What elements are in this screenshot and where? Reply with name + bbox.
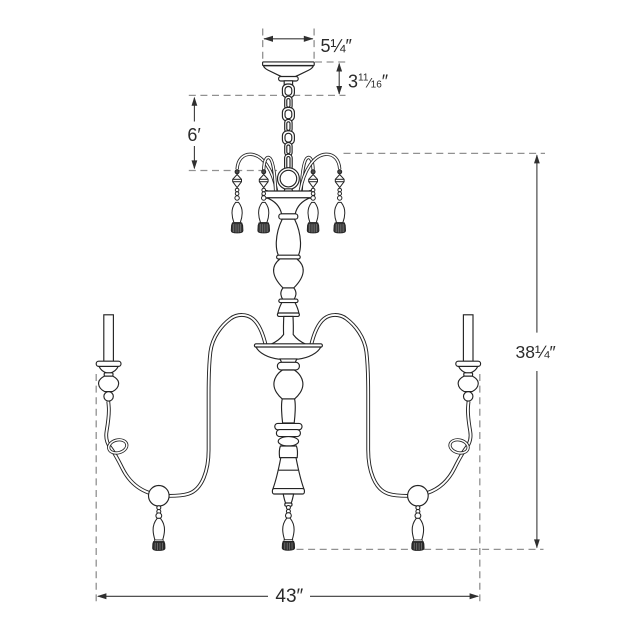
- lower disc: [275, 423, 302, 436]
- column stem: [271, 316, 306, 344]
- arrowhead 43 left: [97, 593, 107, 599]
- ring knob: [284, 189, 292, 193]
- candle left: [96, 315, 121, 401]
- upper tassel 4: [334, 170, 346, 233]
- column egg vase: [274, 259, 304, 288]
- svg-text:6′: 6′: [187, 125, 201, 145]
- svg-text:311⁄16″: 311⁄16″: [348, 72, 389, 92]
- 6ft arrow line bottom: [193, 146, 195, 168]
- chain link 2: [285, 96, 292, 109]
- upper arm inner right: [301, 157, 313, 190]
- arrowhead 38-1/4 down: [534, 539, 540, 548]
- lower vase: [274, 370, 303, 399]
- lower stem: [282, 399, 296, 423]
- main arm left upper: [169, 315, 266, 496]
- main arm right lower: [428, 401, 471, 492]
- canopy bottom / chain top level line: [189, 94, 346, 96]
- arrowhead 5-1/4 right: [304, 36, 314, 42]
- column band disc: [277, 255, 301, 259]
- finial collar: [285, 503, 292, 506]
- top plate: [263, 191, 314, 198]
- 6ft arrow line top: [193, 98, 195, 122]
- arm loop right: [449, 438, 470, 455]
- lower torus: [278, 437, 298, 446]
- column baluster: [276, 219, 300, 255]
- canopy top level line: [315, 61, 346, 63]
- bell rim: [272, 489, 304, 494]
- candle right: [456, 315, 481, 401]
- canopy neck: [284, 81, 292, 85]
- svg-text:5¼″: 5¼″: [321, 36, 353, 56]
- arrowhead 5-1/4 left: [263, 36, 273, 42]
- width guide left: [95, 374, 97, 601]
- fixture bottom level line: [297, 548, 544, 550]
- canopy flare: [263, 66, 313, 77]
- plate end knob right: [307, 191, 315, 199]
- chain link 1: [282, 84, 294, 98]
- chain bottom level line: [189, 170, 278, 172]
- 38-1/4 line bottom: [536, 371, 538, 548]
- upper tassel 2: [258, 170, 270, 233]
- upper tassel 1: [231, 170, 243, 233]
- bell band: [279, 469, 299, 471]
- column waist bulb: [281, 288, 296, 299]
- arrowhead 3-11/16 up: [336, 63, 342, 72]
- canopy disc: [263, 62, 315, 66]
- chain link 3: [282, 107, 294, 121]
- width guide right: [479, 374, 481, 601]
- main arm left lower: [106, 401, 149, 492]
- main arm right upper: [311, 315, 408, 496]
- 43 line right: [310, 595, 478, 597]
- plate end knob left: [262, 191, 270, 199]
- 43 line left: [98, 595, 268, 597]
- arrowhead 43 right: [470, 593, 480, 599]
- 5-1/4 arrow line: [264, 38, 313, 40]
- bowl neck: [280, 359, 297, 363]
- svg-text:38¼″: 38¼″: [516, 342, 556, 362]
- 38-1/4 line top: [536, 155, 538, 332]
- upper arm outer right: [300, 154, 339, 191]
- chain link 6: [285, 143, 292, 156]
- upper arm outer left: [237, 154, 276, 191]
- canopy collar: [279, 77, 299, 81]
- bottom tassel left: [153, 506, 165, 551]
- arrowhead 6ft down: [192, 160, 198, 169]
- bowl collar: [277, 362, 299, 370]
- chain link 4: [285, 119, 292, 132]
- arm loop left: [107, 438, 128, 455]
- drip bowl rim: [254, 344, 322, 347]
- drip bowl: [256, 347, 321, 359]
- column collar ring: [279, 214, 298, 219]
- upper tassel 3: [307, 170, 319, 233]
- hanging loop ring: [278, 168, 300, 190]
- column collar band: [279, 299, 298, 303]
- canopy width guide left: [262, 29, 264, 62]
- column taper to neck: [267, 198, 310, 214]
- arm ball left: [149, 486, 170, 507]
- arm ball right: [408, 486, 429, 507]
- column bell rim: [277, 313, 299, 316]
- chain link 5: [282, 131, 294, 145]
- arrowhead 38-1/4 up: [534, 154, 540, 163]
- arrowhead 3-11/16 down: [336, 86, 342, 95]
- fixture top level line: [344, 152, 546, 154]
- canopy width guide right: [313, 29, 315, 62]
- svg-text:43″: 43″: [275, 586, 303, 607]
- upper arm inner left: [264, 157, 276, 190]
- bell: [273, 458, 304, 489]
- 3-11/16 arrow line: [338, 64, 340, 94]
- finial taper: [283, 494, 293, 503]
- column bell collar: [278, 303, 299, 314]
- bun: [279, 446, 297, 458]
- bottom tassel center: [282, 506, 294, 551]
- bottom tassel right: [412, 506, 424, 551]
- chain end link: [285, 154, 293, 170]
- arrowhead 6ft up: [192, 97, 198, 106]
